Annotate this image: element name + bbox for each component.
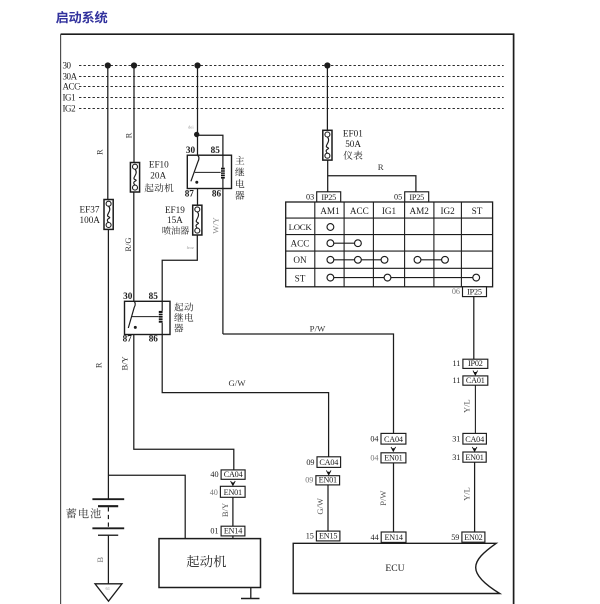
svg-text:EF37: EF37 — [80, 205, 100, 215]
connector 40 CA04 — [210, 470, 245, 479]
svg-text:100A: 100A — [80, 215, 101, 225]
wire EN14 to starter — [232, 536, 234, 539]
wire label P/W vertical — [378, 491, 388, 506]
svg-text:ECU: ECU — [385, 563, 404, 574]
svg-text:R: R — [95, 149, 105, 155]
table row labels LOCK ACC ON ST — [289, 222, 313, 283]
connector 59 EN02 — [451, 532, 485, 542]
label EF37 100A — [80, 205, 101, 226]
svg-text:CA04: CA04 — [384, 435, 403, 444]
wire 09EN01 to 15EN15, G/W — [327, 485, 329, 531]
wire label R battery line lower — [94, 362, 104, 368]
fuse EF19 — [193, 205, 202, 235]
svg-text:W/Y: W/Y — [211, 217, 221, 234]
connector 15 EN15 — [306, 531, 340, 541]
wire 40EN01 to 01EN14, B/Y — [232, 497, 234, 526]
start relay name 起动继电器 — [174, 303, 193, 333]
schematic frame border — [61, 34, 514, 604]
svg-text:Y/L: Y/L — [462, 399, 472, 413]
svg-text:Y/L: Y/L — [461, 487, 471, 501]
arrow 09 CA04-EN01 — [326, 470, 331, 474]
wire EF10 to start relay pin30, R/G — [133, 192, 135, 301]
svg-text:CA04: CA04 — [319, 458, 338, 467]
svg-text:B/Y: B/Y — [119, 356, 129, 370]
svg-text:IP25: IP25 — [467, 287, 482, 296]
svg-text:ACC: ACC — [63, 82, 81, 92]
arrow 04 CA04-EN01 — [391, 447, 396, 451]
start relay switch contact — [128, 301, 137, 329]
svg-text:EF10: EF10 — [149, 160, 169, 170]
wire EF37 to battery — [107, 229, 109, 499]
main relay pin label 87 — [185, 188, 195, 198]
svg-text:05: 05 — [394, 193, 402, 202]
svg-text:15: 15 — [306, 532, 314, 541]
start relay pin label 85 — [149, 291, 159, 301]
svg-text:G/W: G/W — [228, 378, 246, 388]
svg-text:87: 87 — [123, 333, 133, 343]
main relay U1 box — [187, 155, 231, 188]
svg-text:EN14: EN14 — [224, 527, 242, 536]
ignition switch table grid — [286, 202, 493, 287]
svg-text:B/Y: B/Y — [220, 503, 230, 517]
wire battery to ground, B — [107, 535, 109, 584]
svg-text:15A: 15A — [167, 215, 183, 225]
svg-text:ST: ST — [472, 206, 483, 216]
wire label R EF10 line — [123, 132, 133, 138]
svg-text:EN01: EN01 — [319, 476, 337, 485]
wire EN01 to EN02, Y/L — [474, 462, 476, 532]
svg-text:B: B — [95, 557, 105, 563]
svg-text:R/G: R/G — [123, 238, 133, 252]
start relay coil stubs — [161, 301, 163, 334]
table contact row LOCK — [327, 224, 334, 231]
svg-text:ACC: ACC — [291, 238, 310, 248]
svg-text:09: 09 — [305, 476, 313, 485]
table headers AM1 ACC IG1 AM2 IG2 ST — [320, 206, 482, 216]
fuse EF01 — [323, 130, 332, 160]
wire main relay 86 down, W/Y — [222, 189, 224, 335]
ground battery — [95, 584, 122, 601]
arrow 40 CA04-EN01 — [231, 481, 236, 485]
ECU box with torn edge — [293, 543, 500, 593]
wire bus30 to EF10 — [133, 66, 135, 163]
label EF10 20A 起动机 — [145, 160, 174, 193]
svg-text:09: 09 — [306, 458, 314, 467]
table contact row ACC — [327, 240, 361, 247]
wire label G/W vertical — [315, 498, 325, 515]
tiny mark near junction — [188, 125, 194, 130]
connector 06 IP25 — [452, 287, 487, 297]
svg-text:ACC: ACC — [350, 206, 369, 216]
wire P/W horizontal to ECU branch — [223, 334, 394, 433]
svg-text:44: 44 — [371, 533, 379, 542]
wire EF19 to start relay pin85 — [162, 235, 197, 301]
wire label B/Y vertical — [220, 503, 230, 517]
wire bus30 to EF01 — [326, 66, 328, 131]
starter label 起动机 — [187, 555, 226, 567]
wire branch to main relay pin85 — [198, 135, 223, 155]
svg-text:31: 31 — [452, 453, 460, 462]
start relay K2 box — [125, 301, 171, 334]
start relay link switch-coil — [131, 316, 159, 318]
svg-text:30: 30 — [123, 291, 133, 301]
connector 44 EN14 — [371, 532, 406, 542]
junction dot bus30/battery line — [105, 62, 111, 68]
wire bus30 to EF37 — [107, 66, 109, 200]
bus line 30 — [63, 61, 504, 71]
table contact row ON — [327, 256, 448, 263]
svg-text:11: 11 — [453, 376, 461, 385]
table contact row ST — [327, 274, 480, 281]
start relay pin label 86 — [149, 333, 159, 343]
battery 蓄电池 — [92, 499, 124, 535]
svg-text:ON: ON — [293, 255, 307, 265]
fuse EF37 — [104, 200, 113, 230]
wire label R battery line upper — [95, 149, 105, 155]
svg-text:31: 31 — [452, 435, 460, 444]
connector 31 EN01 — [452, 452, 486, 462]
svg-text:ST: ST — [295, 273, 306, 283]
wire label B/Y upper — [119, 356, 129, 370]
svg-text:IP25: IP25 — [409, 193, 424, 202]
wire battery to starter main terminal — [108, 475, 185, 538]
svg-text:IP02: IP02 — [468, 359, 483, 368]
bus line 30A — [63, 72, 504, 82]
wire label R/G — [123, 238, 133, 252]
svg-text:EN01: EN01 — [465, 453, 483, 462]
svg-text:04: 04 — [370, 435, 378, 444]
svg-text:R: R — [123, 132, 133, 138]
junction dot bus30/main relay line — [194, 62, 200, 68]
wire label P/W horizontal — [310, 323, 326, 333]
svg-text:20A: 20A — [150, 170, 166, 180]
arrow IP02-CA01 — [473, 371, 478, 375]
svg-text:06: 06 — [452, 287, 460, 296]
junction dot bus30/EF01 line — [324, 62, 330, 68]
svg-text:30: 30 — [186, 145, 196, 155]
battery label 蓄电池 — [66, 508, 101, 518]
connector 09 CA04 — [306, 457, 340, 468]
tiny mark below EF19 — [187, 245, 194, 250]
starter ground — [241, 588, 260, 599]
svg-text:EN02: EN02 — [464, 533, 482, 542]
svg-text:40: 40 — [210, 488, 218, 497]
svg-text:IG1: IG1 — [63, 93, 76, 103]
wire label W/Y — [211, 217, 221, 234]
wire label Y/L upper — [462, 399, 472, 413]
wire 04EN01 to 44EN14, P/W — [393, 463, 395, 532]
svg-text:61: 61 — [106, 586, 111, 591]
svg-text:IP25: IP25 — [321, 193, 336, 202]
svg-text:IG1: IG1 — [382, 206, 397, 216]
svg-text:EF19: EF19 — [165, 205, 185, 215]
svg-text:03: 03 — [306, 193, 314, 202]
arrow CA04-EN01 right — [472, 447, 477, 451]
wire ST to IP02 — [473, 297, 475, 360]
svg-text:AM1: AM1 — [320, 206, 340, 216]
svg-text:G/W: G/W — [315, 498, 325, 515]
label EF19 15A 喷油器 — [163, 205, 190, 235]
bus line IG2 — [63, 104, 504, 114]
svg-text:IG2: IG2 — [440, 206, 455, 216]
start relay coil — [158, 311, 163, 323]
svg-text:50A: 50A — [345, 139, 361, 149]
svg-text:EN01: EN01 — [224, 488, 242, 497]
connector 09 EN01 — [305, 476, 339, 485]
svg-text:dei: dei — [188, 125, 194, 130]
connector 40 EN01 — [210, 486, 245, 497]
start relay pin label 87 — [123, 333, 133, 343]
wire label Y/L lower — [461, 487, 471, 501]
svg-text:01: 01 — [210, 527, 218, 536]
main relay link switch-coil — [195, 171, 221, 173]
junction dot main relay branch — [194, 132, 199, 137]
svg-text:EN01: EN01 — [384, 454, 402, 463]
main relay name 主继电器 — [235, 156, 244, 200]
connector 05 IP25 — [394, 192, 429, 202]
svg-text:AM2: AM2 — [409, 206, 429, 216]
svg-text:86: 86 — [149, 333, 159, 343]
connector 31 CA04 right — [452, 433, 486, 444]
main relay pin label 86 — [212, 188, 222, 198]
start relay pin label 30 — [123, 291, 133, 301]
main relay coil — [221, 155, 226, 188]
wire label R ignition — [378, 162, 384, 172]
svg-text:30: 30 — [63, 61, 72, 71]
svg-text:EN14: EN14 — [384, 533, 402, 542]
fuse EF10 — [130, 163, 139, 193]
svg-text:EN15: EN15 — [319, 532, 337, 541]
connector 03 IP25 — [306, 192, 341, 202]
svg-text:30A: 30A — [63, 72, 78, 82]
svg-text:CA01: CA01 — [466, 376, 485, 385]
svg-text:LOCK: LOCK — [289, 222, 313, 232]
junction dot bus30/EF10 line — [131, 62, 137, 68]
svg-text:85: 85 — [149, 291, 159, 301]
svg-text:CA04: CA04 — [465, 435, 484, 444]
svg-text:59: 59 — [451, 533, 459, 542]
svg-text:86: 86 — [212, 188, 222, 198]
svg-text:R: R — [378, 162, 384, 172]
svg-text:EF01: EF01 — [343, 128, 363, 138]
connector 04 CA04 — [370, 433, 406, 444]
svg-text:87: 87 — [185, 188, 195, 198]
connector 01 EN14 — [210, 526, 244, 536]
svg-text:04: 04 — [370, 454, 378, 463]
svg-text:IG2: IG2 — [63, 104, 76, 114]
svg-text:CA04: CA04 — [224, 470, 243, 479]
wire CA01 to CA04, Y/L — [474, 385, 476, 433]
wire bus30 to main relay pin30 — [197, 66, 199, 156]
ECU label — [385, 563, 404, 574]
connector 11 CA01 — [453, 376, 488, 385]
svg-text:40: 40 — [210, 470, 218, 479]
label EF01 50A 仪表 — [343, 128, 363, 159]
bus line ACC — [63, 82, 504, 92]
svg-text:P/W: P/W — [310, 323, 326, 333]
main relay pin label 30 — [186, 145, 196, 155]
wire label B — [95, 557, 105, 563]
svg-text:P/W: P/W — [378, 491, 388, 506]
svg-text:11: 11 — [453, 359, 461, 368]
main relay switch contact — [191, 155, 199, 184]
bus line IG1 — [63, 93, 504, 103]
svg-text:85: 85 — [211, 145, 221, 155]
wire label G/W horizontal — [228, 378, 246, 388]
wire start relay 86 down G/W — [162, 335, 328, 457]
main relay pin label 85 — [211, 145, 221, 155]
wire EF01 to ignition switch, R — [328, 160, 416, 192]
connector 04 EN01 — [370, 453, 406, 463]
svg-text:R: R — [94, 362, 104, 368]
connector 11 IP02 — [453, 359, 488, 368]
wire start relay 87 down B/Y — [134, 335, 234, 470]
title 启动系统 — [56, 11, 107, 24]
starter motor 起动机 box — [159, 539, 261, 588]
svg-text:froz: froz — [187, 245, 194, 250]
wire main relay 87 to EF19 — [197, 189, 199, 206]
